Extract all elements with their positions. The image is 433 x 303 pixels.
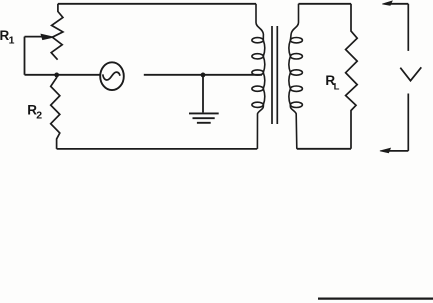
transformer core <box>271 26 273 124</box>
resistor R1 (rheostat) <box>51 4 63 60</box>
svg-text:2: 2 <box>36 110 42 122</box>
wire bracket vertical lower <box>407 94 409 151</box>
wire top primary <box>58 3 256 5</box>
transformer T1 primary winding <box>252 4 265 149</box>
svg-text:L: L <box>334 82 340 93</box>
wire bottom secondary <box>297 148 351 150</box>
source V1 (AC generator) <box>100 62 124 90</box>
wire top secondary <box>299 3 352 5</box>
wire ground drop <box>202 75 204 112</box>
separator line <box>318 297 433 299</box>
voltage arrow bottom <box>386 150 408 152</box>
wire bracket vertical upper <box>407 4 409 51</box>
svg-text:1: 1 <box>9 35 15 47</box>
wire bottom primary <box>57 148 258 150</box>
transformer T1 secondary winding <box>289 4 303 149</box>
ground <box>189 112 219 114</box>
resistor R2 <box>51 75 60 149</box>
resistor RL <box>346 4 358 149</box>
voltage arrow top <box>386 3 408 5</box>
wire center right <box>144 74 262 76</box>
wire center left <box>25 74 101 76</box>
label V <box>400 67 421 80</box>
node R1/R2 junction <box>54 73 59 78</box>
node ground junction <box>201 73 206 78</box>
wire wiper vertical <box>24 37 26 75</box>
wiper arrow of R1 <box>25 36 43 38</box>
